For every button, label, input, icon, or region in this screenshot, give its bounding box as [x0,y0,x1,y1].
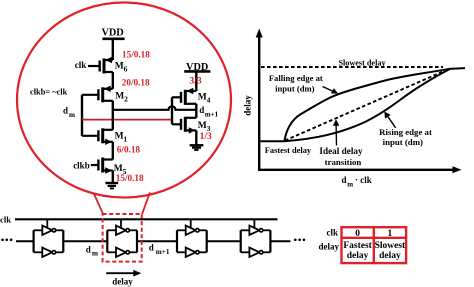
curve rising edge at input [285,69,451,141]
svg-text:m+1: m+1 [205,110,219,118]
wire into cell 1 [16,240,34,242]
svg-text:m+1: m+1 [156,248,170,256]
x axis [258,169,456,171]
wire M1 source to M5 drain [112,110,114,130]
svg-text:Rising edge at: Rising edge at [379,127,432,137]
wire cell3 to cell4 [207,240,241,242]
transistor M4 (PMOS) [172,88,196,105]
svg-text:1: 1 [123,135,127,144]
ellipsis left [1,239,4,242]
svg-text:2: 2 [124,95,128,104]
svg-text:· clk: · clk [355,175,372,185]
svg-text:clkb: clkb [73,160,90,170]
delay direction arrow [106,272,136,274]
svg-text:d: d [342,175,347,185]
svg-text:delay: delay [379,251,401,261]
svg-text:Slowest delay: Slowest delay [338,58,386,67]
VDD rail bar (right stack) [184,70,210,73]
svg-text:d: d [199,105,204,115]
svg-text:6: 6 [124,65,128,74]
svg-text:clk: clk [0,214,11,224]
svg-text:d: d [86,245,91,255]
svg-text:M: M [198,92,207,102]
wire gate link M2-M1 (vertical) [81,95,83,136]
slowest delay tail [449,67,466,70]
transistor M6 (PMOS) [88,57,113,74]
svg-text:d: d [149,242,154,252]
delay cell 4 [241,219,271,257]
delay cell 1 [34,219,64,257]
svg-text:m: m [347,180,353,188]
svg-text:Slowest: Slowest [375,241,406,251]
wire M4 drain to d_m+1 node [195,104,197,118]
svg-text:delay: delay [243,95,253,116]
svg-text:delay: delay [318,241,339,251]
svg-text:4: 4 [207,95,211,104]
arrow to ideal line [335,125,337,146]
svg-text:15/0.18: 15/0.18 [116,173,144,183]
svg-text:Fastest delay: Fastest delay [265,146,312,155]
table grid [342,227,407,263]
wire gate link M4-M3 (vertical) [171,97,173,124]
clk distribution line [15,218,278,220]
transistor M5 (NMOS) [91,158,113,174]
svg-text:VDD: VDD [101,28,123,39]
svg-text:clk: clk [326,227,338,237]
arrow to falling curve [323,87,334,92]
svg-text:1: 1 [388,229,393,239]
svg-text:d: d [63,106,68,116]
svg-text:input (dm): input (dm) [383,137,423,147]
wire M3 source to ground [195,130,197,144]
wire d_m net (red) [82,119,172,121]
svg-text:input (dm): input (dm) [275,84,315,94]
svg-text:Fastest: Fastest [343,241,372,251]
y axis [258,34,260,171]
highlight dashed box around cell 2 [103,214,142,262]
svg-text:M: M [115,62,124,72]
transistor M1 (NMOS) [82,128,113,145]
svg-text:M: M [115,132,124,142]
wire VDD to M6 source [112,39,114,60]
fastest delay flat segment [259,140,284,142]
wire output net with hop over gate wire [113,106,197,109]
svg-text:clkb= ~clk: clkb= ~clk [30,87,68,96]
delay cell 2 (highlighted) [107,219,137,257]
dashed ideal delay transition line [285,72,443,141]
wire M2 drain down to output node [112,101,114,110]
delay cell 3 [177,219,207,257]
callout funnel right line [142,192,150,214]
svg-text:clk: clk [75,60,87,70]
arrow to rising curve [388,117,396,128]
svg-text:15/0.18: 15/0.18 [122,49,150,59]
wire cell2 to cell3 (node d_m+1) [137,240,177,242]
svg-text:1/3: 1/3 [200,131,212,142]
wire VDD to M4 source [195,71,197,91]
svg-text:delay: delay [347,251,369,261]
svg-text:delay: delay [112,276,133,286]
svg-text:m: m [92,250,98,258]
svg-text:M: M [115,92,124,102]
svg-text:Ideal delay: Ideal delay [319,146,363,156]
svg-text:0: 0 [355,229,360,239]
callout ellipse (magnifier circle) [17,3,231,198]
callout funnel left line [94,193,104,214]
curve falling edge at input [285,69,450,141]
svg-text:m: m [69,111,75,119]
dashed slowest delay line [261,66,443,68]
wire cell1 to cell2 (node d_m) [63,240,107,242]
transistor M3 (NMOS) [172,117,196,134]
ellipsis right [294,239,297,242]
ground (left stack) [105,183,118,188]
svg-text:M: M [198,121,207,131]
svg-text:6/0.18: 6/0.18 [117,145,141,155]
svg-text:3/3: 3/3 [189,75,201,86]
wire M5 source to ground [112,171,114,183]
ground (right stack) [190,145,204,150]
svg-text:transition: transition [325,157,362,167]
wire out of cell 4 [270,240,290,242]
svg-text:20/0.18: 20/0.18 [122,78,150,88]
svg-text:Falling edge at: Falling edge at [269,73,323,83]
VDD rail bar (left stack) [102,37,124,40]
wire M6 drain to M2 source [112,72,114,89]
transistor M2 (PMOS) [82,86,113,103]
